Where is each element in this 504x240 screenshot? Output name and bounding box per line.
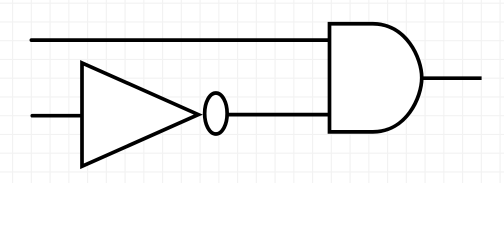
AND gate U2 (330, 24, 422, 132)
inverter U1 bubble (205, 93, 228, 134)
inverter U1 triangle (82, 63, 198, 166)
wire: bottom input to inverter (32, 114, 83, 118)
wire: top input to AND gate (31, 38, 329, 42)
wire: inverter bubble to AND gate (224, 113, 330, 117)
wire: AND gate output (421, 76, 482, 80)
